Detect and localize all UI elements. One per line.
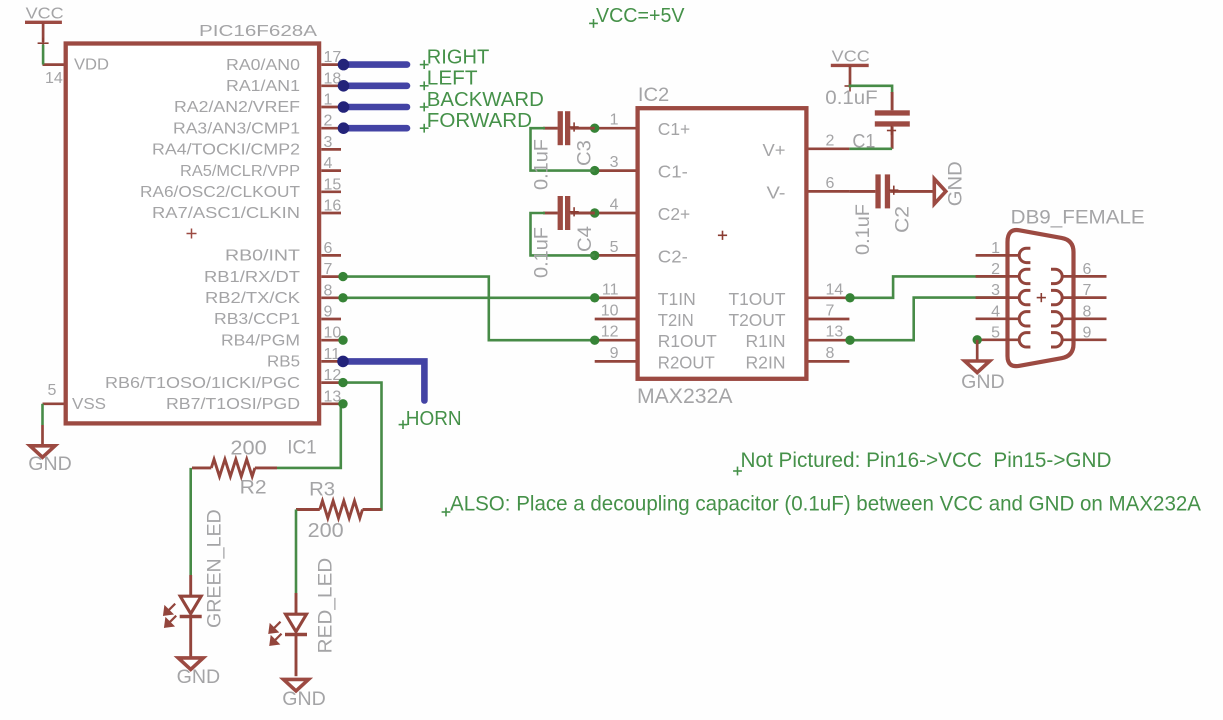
note text ALSO decoupling: [442, 511, 451, 513]
svg-text:200: 200: [308, 520, 344, 542]
wire VSS to GND: [41, 404, 44, 425]
wire T1OUT to DB9 pin2: [850, 276, 1008, 297]
svg-text:RA1/AN1: RA1/AN1: [226, 78, 300, 95]
svg-text:RED_LED: RED_LED: [316, 558, 337, 654]
svg-text:3: 3: [991, 282, 1000, 299]
IC1 pin 6 RB0/INT stub: [321, 254, 341, 257]
IC2 origin cross: [718, 234, 727, 236]
svg-text:4: 4: [610, 197, 619, 214]
net label FORWARD: [420, 127, 429, 129]
svg-text:12: 12: [601, 324, 619, 341]
svg-text:6: 6: [826, 175, 835, 192]
junction dot RB5: [337, 356, 349, 368]
IC1 pin 11 RB5 stub: [321, 360, 341, 363]
svg-text:1: 1: [610, 112, 619, 129]
svg-text:PIC16F628A: PIC16F628A: [199, 23, 317, 40]
IC2 pin 9 R2OUT stub: [595, 360, 636, 363]
wire C1 to V+: [849, 148, 892, 151]
svg-text:C1+: C1+: [658, 119, 690, 139]
svg-text:RA0/AN0: RA0/AN0: [226, 57, 300, 74]
IC2 pin 6 V- stub: [809, 190, 850, 193]
svg-text:RB4/PGM: RB4/PGM: [221, 332, 300, 349]
wire FORWARD (blue) from IC1: [344, 125, 408, 132]
IC2 pin 1 C1+ stub: [595, 127, 636, 130]
junction dot pin 5: [590, 251, 599, 260]
IC2 pin 3 C1- stub: [595, 169, 636, 172]
svg-text:RA3/AN3/CMP1: RA3/AN3/CMP1: [173, 120, 300, 137]
IC2 pin 8 R2IN stub: [809, 360, 850, 363]
svg-text:C4: C4: [575, 226, 596, 252]
wire RB6 to R3: [343, 383, 382, 510]
IC2 pin 4 C2+ stub: [595, 212, 636, 215]
IC2 pin 14 T1OUT stub: [809, 296, 850, 299]
svg-text:RB6/T1OSO/1ICKI/PGC: RB6/T1OSO/1ICKI/PGC: [105, 375, 300, 392]
ground GND (below DB9 pin5): [976, 340, 979, 361]
IC1 pin 13 RB7/T1OSI/PGD stub: [321, 402, 341, 405]
svg-text:5: 5: [610, 239, 619, 256]
IC1 pin 10 RB4/PGM stub: [321, 339, 341, 342]
junction dot pin row LEFT: [338, 80, 350, 92]
resistor R2 body: [192, 466, 211, 469]
svg-text:14: 14: [45, 70, 63, 87]
DB9 pin 7 contact: [1051, 290, 1062, 304]
junction dot T1OUT: [845, 293, 854, 302]
svg-text:GND: GND: [282, 688, 326, 710]
svg-text:GREEN_LED: GREEN_LED: [205, 509, 226, 628]
svg-text:11: 11: [602, 281, 619, 298]
DB9 pin 5 contact: [1019, 333, 1030, 347]
DB9 pin 4 lead: [976, 317, 1020, 320]
wire LEFT (blue) from IC1: [344, 83, 408, 90]
IC1 pin 9 RB3/CCP1 stub: [321, 318, 341, 321]
svg-text:T2OUT: T2OUT: [729, 310, 786, 330]
svg-text:VCC=+5V: VCC=+5V: [596, 4, 685, 27]
svg-text:5: 5: [991, 324, 1000, 341]
note text Not Pictured: [733, 470, 742, 472]
DB9 pin 1 lead: [976, 254, 1020, 257]
DB9 pin 8 lead: [1062, 317, 1106, 320]
net label BACKWARD: [420, 106, 429, 108]
svg-text:8: 8: [826, 345, 835, 362]
svg-text:7: 7: [826, 303, 835, 320]
IC1 pin 16 RA7/ASC1/CLKIN stub: [321, 212, 341, 215]
svg-text:GND: GND: [177, 666, 221, 688]
svg-text:10: 10: [601, 303, 619, 320]
capacitor C3: [543, 127, 558, 130]
svg-text:GND: GND: [961, 371, 1005, 393]
IC1 pin 12 RB6/T1OSO/1ICKI/PGC stub: [321, 381, 341, 384]
svg-text:RA6/OSC2/CLKOUT: RA6/OSC2/CLKOUT: [140, 184, 300, 201]
svg-text:IC1: IC1: [287, 438, 317, 459]
svg-text:7: 7: [324, 261, 333, 278]
wire BACKWARD (blue) from IC1: [344, 104, 408, 111]
svg-text:3: 3: [324, 134, 333, 151]
pin 5 VSS stub: [43, 402, 64, 405]
svg-text:RA5/MCLR/VPP: RA5/MCLR/VPP: [180, 163, 300, 180]
junction dot pin row FORWARD: [338, 122, 350, 134]
svg-text:0.1uF: 0.1uF: [532, 227, 553, 278]
junction dot RB6: [338, 378, 347, 387]
svg-text:VSS: VSS: [72, 396, 106, 413]
wire RIGHT (blue) from IC1: [344, 61, 408, 68]
svg-text:DB9_FEMALE: DB9_FEMALE: [1011, 207, 1145, 229]
ground GND (right of C2, rotated): [934, 179, 946, 204]
DB9 pin 2 lead: [976, 275, 1020, 278]
svg-text:2: 2: [991, 261, 1000, 278]
DB9 origin cross: [1037, 297, 1046, 299]
wire HORN (blue) from IC1 RB5: [343, 361, 424, 400]
wire R1IN to DB9 pin3: [850, 298, 1008, 341]
ground GND (below RED_LED): [284, 679, 309, 691]
capacitor C2: [849, 190, 875, 193]
svg-text:13: 13: [826, 324, 844, 341]
svg-text:15: 15: [324, 176, 342, 193]
junction dot pin row RIGHT: [338, 59, 350, 71]
svg-text:V-: V-: [767, 182, 786, 202]
svg-text:4: 4: [991, 303, 1000, 320]
svg-text:RB0/INT: RB0/INT: [225, 248, 300, 265]
DB9 pin 1 contact: [1019, 248, 1030, 262]
svg-text:14: 14: [826, 281, 844, 298]
svg-text:8: 8: [324, 282, 333, 299]
DB9 pin 2 contact: [1019, 269, 1030, 283]
IC2 pin 11 T1IN stub: [595, 296, 636, 299]
svg-text:7: 7: [1083, 282, 1092, 299]
pin 14 VDD stub: [43, 63, 64, 66]
junction dot pin row BACKWARD: [338, 101, 350, 113]
svg-text:RB1/RX/DT: RB1/RX/DT: [204, 269, 300, 286]
svg-text:1: 1: [324, 92, 333, 109]
svg-text:RB3/CCP1: RB3/CCP1: [214, 311, 300, 328]
svg-text:16: 16: [324, 198, 342, 215]
wire R3 to RED_LED: [295, 510, 298, 594]
wire RB1/RX to R1OUT: [343, 277, 595, 341]
IC IC2 MAX232A body: [638, 108, 807, 379]
IC1 pin 8 RB2/TX/CK stub: [321, 296, 341, 299]
svg-text:R1IN: R1IN: [746, 331, 786, 351]
LED RED_LED: [295, 593, 298, 614]
net label RIGHT: [420, 64, 429, 66]
svg-text:Not Pictured: Pin16->VCC Pin1: Not Pictured: Pin16->VCC Pin15->GND: [741, 449, 1112, 472]
DB9 pin 7 lead: [1062, 296, 1106, 299]
svg-text:R2OUT: R2OUT: [658, 352, 715, 372]
svg-text:VDD: VDD: [74, 57, 109, 74]
DB9 pin 3 lead: [976, 296, 1020, 299]
svg-text:5: 5: [48, 382, 57, 399]
svg-text:R3: R3: [309, 480, 335, 501]
DB9 pin 6 lead: [1062, 275, 1106, 278]
IC IC1 PIC16F628A body: [66, 44, 319, 424]
svg-text:VCC: VCC: [26, 6, 64, 23]
resistor R3 body: [296, 508, 320, 511]
svg-text:HORN: HORN: [406, 408, 462, 430]
svg-text:RA4/TOCKI/CMP2: RA4/TOCKI/CMP2: [152, 142, 300, 159]
IC1 pin 15 RA6/OSC2/CLKOUT stub: [321, 190, 341, 193]
junction dot pin 3: [590, 166, 599, 175]
svg-text:RB7/T1OSI/PGD: RB7/T1OSI/PGD: [166, 396, 300, 413]
svg-text:T2IN: T2IN: [658, 310, 694, 330]
svg-text:R2: R2: [240, 477, 267, 498]
wire C4 to pin5 C2-: [531, 213, 595, 255]
wire C3 to pin3 C1-: [531, 128, 595, 170]
DB9 pin 4 contact: [1019, 312, 1030, 326]
DB9 pin 9 contact: [1051, 333, 1062, 347]
svg-text:GND: GND: [945, 161, 967, 206]
ground GND (below VSS): [41, 425, 44, 446]
svg-text:VCC: VCC: [832, 49, 870, 66]
svg-text:4: 4: [324, 155, 333, 172]
svg-text:2: 2: [324, 113, 333, 130]
svg-text:T1IN: T1IN: [658, 289, 696, 309]
junction dot RB2: [338, 293, 347, 302]
IC2 pin 7 T2OUT stub: [809, 318, 850, 321]
junction dot RB7: [338, 399, 347, 408]
svg-text:R1OUT: R1OUT: [658, 331, 717, 351]
LED GREEN_LED: [189, 575, 192, 596]
svg-text:MAX232A: MAX232A: [637, 385, 733, 408]
svg-text:C2: C2: [893, 206, 914, 233]
IC1 origin cross: [187, 233, 197, 235]
svg-text:6: 6: [1083, 261, 1092, 278]
junction dot pin 12: [590, 336, 599, 345]
svg-text:6: 6: [324, 240, 333, 257]
IC2 pin 5 C2- stub: [595, 254, 636, 257]
svg-text:0.1uF: 0.1uF: [825, 88, 877, 109]
svg-text:RB2/TX/CK: RB2/TX/CK: [205, 290, 300, 307]
junction dot R1IN: [845, 336, 854, 345]
DB9 pin 9 lead: [1062, 338, 1106, 341]
junction dot pin 4: [590, 208, 599, 217]
wire VCC to C1: [850, 86, 892, 93]
svg-text:R2IN: R2IN: [746, 352, 786, 372]
wire R2 to GREEN_LED: [189, 468, 192, 575]
net label LEFT: [420, 85, 429, 87]
svg-text:FORWARD: FORWARD: [427, 110, 532, 132]
IC1 pin 17 RA0/AN0 stub: [321, 63, 341, 66]
svg-text:C3: C3: [575, 140, 596, 166]
svg-text:ALSO: Place a decoupling capac: ALSO: Place a decoupling capacitor (0.1u…: [450, 492, 1201, 515]
IC1 pin 7 RB1/RX/DT stub: [321, 275, 341, 278]
svg-text:200: 200: [230, 437, 266, 459]
svg-text:1: 1: [991, 240, 1000, 257]
connector X1 DB9_FEMALE body: [1008, 230, 1074, 366]
svg-text:RIGHT: RIGHT: [427, 46, 490, 68]
IC1 pin 2 RA3/AN3/CMP1 stub: [321, 127, 341, 130]
junction dot pin 1: [590, 124, 599, 133]
IC1 pin 18 RA1/AN1 stub: [321, 84, 341, 87]
svg-text:8: 8: [1083, 303, 1092, 320]
IC2 pin 10 T2IN stub: [595, 318, 636, 321]
junction dot RB1: [338, 272, 347, 281]
capacitor C1: [891, 92, 894, 110]
DB9 pin 8 contact: [1051, 312, 1062, 326]
svg-text:9: 9: [610, 345, 619, 362]
svg-text:T1OUT: T1OUT: [729, 289, 786, 309]
svg-text:RB5: RB5: [267, 354, 300, 371]
svg-text:0.1uF: 0.1uF: [532, 139, 553, 190]
wire RB2/TX to T1IN: [343, 296, 595, 299]
svg-text:9: 9: [1083, 324, 1092, 341]
svg-text:2: 2: [826, 132, 835, 149]
wire VCC to VDD: [42, 45, 45, 65]
svg-text:3: 3: [610, 154, 619, 171]
svg-text:0.1uF: 0.1uF: [853, 204, 874, 255]
junction dot RB4: [338, 336, 347, 345]
junction dot pin 11: [590, 293, 599, 302]
svg-text:RA7/ASC1/CLKIN: RA7/ASC1/CLKIN: [152, 205, 300, 222]
ground GND (below GREEN_LED): [178, 658, 203, 670]
IC1 pin 1 RA2/AN2/VREF stub: [321, 106, 341, 109]
IC2 pin 12 R1OUT stub: [595, 339, 636, 342]
svg-text:C1-: C1-: [658, 162, 688, 182]
IC2 pin 13 R1IN stub: [809, 339, 850, 342]
svg-text:V+: V+: [763, 140, 786, 160]
junction dot DB9 pin5: [973, 335, 982, 344]
svg-text:LEFT: LEFT: [427, 68, 478, 90]
svg-text:9: 9: [324, 304, 333, 321]
IC1 pin 3 RA4/TOCKI/CMP2 stub: [321, 148, 341, 151]
IC2 pin 2 V+ stub: [809, 147, 850, 150]
svg-text:C2+: C2+: [658, 204, 690, 224]
svg-text:GND: GND: [28, 453, 72, 475]
wire RB7 to R2: [277, 404, 343, 468]
svg-text:C2-: C2-: [658, 246, 688, 266]
svg-text:BACKWARD: BACKWARD: [427, 89, 544, 111]
DB9 pin 3 contact: [1019, 290, 1030, 304]
svg-text:IC2: IC2: [638, 85, 669, 106]
DB9 pin 5 lead: [976, 338, 1020, 341]
net label HORN: [399, 424, 408, 426]
capacitor C4: [543, 212, 558, 215]
net label VCC=+5V: [589, 22, 598, 24]
IC1 pin 4 RA5/MCLR/VPP stub: [321, 169, 341, 172]
DB9 pin 6 contact: [1051, 269, 1062, 283]
svg-text:RA2/AN2/VREF: RA2/AN2/VREF: [174, 99, 300, 116]
